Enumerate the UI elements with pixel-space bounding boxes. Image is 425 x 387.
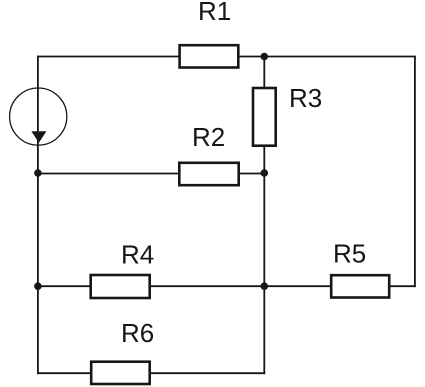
wire top horizontal: [38, 56, 415, 58]
svg-text:R5: R5: [333, 239, 366, 269]
resistor R5: [331, 275, 389, 297]
wire bottom horizontal: [38, 372, 264, 374]
wire node2 horizontal: [38, 173, 264, 175]
wire left vertical: [37, 57, 39, 374]
svg-text:R2: R2: [192, 122, 225, 152]
node junction dot left lower: [34, 282, 42, 290]
node junction dot middle lower: [261, 282, 269, 290]
current source I1: [10, 88, 67, 145]
node junction dot top: [261, 53, 269, 61]
resistor R2: [179, 163, 238, 185]
svg-text:R6: R6: [121, 318, 154, 348]
resistor R1: [180, 45, 239, 67]
wire node3 horizontal: [38, 285, 415, 287]
resistor R3: [253, 88, 276, 146]
node junction dot right mid: [261, 169, 269, 177]
node junction dot left mid: [34, 169, 42, 177]
resistor R6: [91, 362, 150, 384]
wire right vertical: [414, 57, 416, 287]
svg-text:R4: R4: [121, 239, 154, 269]
wire middle vertical: [263, 57, 265, 374]
svg-text:R3: R3: [289, 83, 322, 113]
svg-text:R1: R1: [198, 0, 231, 26]
resistor R4: [91, 275, 150, 298]
